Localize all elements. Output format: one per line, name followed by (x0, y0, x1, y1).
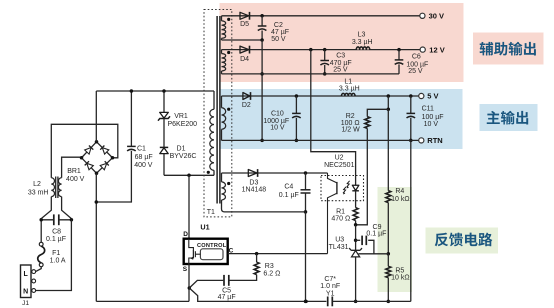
svg-text:C11: C11 (422, 106, 434, 113)
stack wire down (261, 40, 263, 140)
svg-text:S: S (183, 266, 188, 273)
ref wire (359, 253, 389, 255)
C pin wire (228, 253, 328, 255)
capacitor C10 1000 µF 10 V (295, 94, 299, 98)
svg-text:TL431: TL431 (329, 244, 349, 251)
svg-text:6.2 Ω: 6.2 Ω (263, 271, 280, 278)
capacitor C7* 1.0 nF Y1 (327, 297, 329, 307)
svg-text:10 V: 10 V (270, 124, 285, 131)
svg-text:J1: J1 (22, 300, 29, 307)
svg-text:0.1 µF: 0.1 µF (46, 236, 66, 243)
+ rail (primary top) (96, 90, 214, 92)
capacitor C9 0.1 µF (356, 239, 361, 241)
R4/R5 divider chain (387, 109, 389, 190)
terminal 12 V (420, 47, 425, 52)
svg-text:5 V: 5 V (427, 92, 438, 101)
svg-text:VR1: VR1 (174, 113, 188, 120)
primary ground bottom wire left (96, 300, 189, 302)
diode D1 BYV26C (160, 146, 168, 148)
svg-text:1N4148: 1N4148 (242, 187, 267, 194)
stack wire 12V to 5V (309, 48, 313, 52)
wire L node to F1 (40, 220, 42, 242)
svg-text:CONTROL: CONTROL (197, 243, 227, 249)
svg-text:3.3 µH: 3.3 µH (339, 86, 360, 93)
svg-text:470 Ω: 470 Ω (331, 215, 350, 222)
TL431 U3 (355, 225, 357, 250)
bridge rectifier BR1 400 V (82, 142, 113, 173)
5V rail (222, 95, 419, 97)
resistor R5 10 kΩ (387, 254, 389, 266)
fuse F1 1.0 A (39, 242, 43, 246)
svg-text:D2: D2 (242, 102, 251, 109)
svg-text:50 V: 50 V (271, 36, 286, 43)
svg-text:D: D (183, 231, 188, 238)
svg-text:R4: R4 (395, 188, 404, 195)
svg-text:C1: C1 (137, 146, 146, 153)
svg-text:U3: U3 (335, 237, 344, 244)
bias winding (221, 173, 223, 182)
TVS VR1 P6KE200 (163, 91, 165, 112)
svg-text:BR1: BR1 (67, 168, 81, 175)
svg-text:33 mH: 33 mH (28, 189, 49, 196)
label box 反馈电路 (426, 228, 499, 254)
terminal 5 V (419, 93, 424, 98)
secondary winding 12V (221, 50, 223, 54)
diode D4 (240, 46, 249, 53)
svg-text:3.3 µH: 3.3 µH (352, 39, 373, 46)
capacitor C6 100 µF 25 V (397, 48, 401, 52)
svg-text:U1: U1 (200, 222, 209, 231)
svg-text:0.1 µF: 0.1 µF (279, 192, 299, 199)
opto LED (352, 185, 359, 190)
svg-text:BYV26C: BYV26C (170, 153, 197, 160)
svg-text:C6: C6 (412, 53, 421, 60)
capacitor C11 100 µF 10 V (409, 94, 413, 98)
bias return wire (225, 211, 306, 213)
svg-text:C8: C8 (52, 229, 61, 236)
svg-text:T1: T1 (207, 209, 215, 216)
internal MOSFET (189, 239, 194, 251)
feedback zone (green strip) (378, 187, 413, 292)
svg-text:10 kΩ: 10 kΩ (391, 196, 409, 203)
opto transistor (328, 173, 337, 183)
svg-text:U2: U2 (335, 155, 344, 162)
wire bridge bottom to primary ground (95, 173, 97, 301)
12V return rail (222, 73, 400, 75)
svg-text:RTN: RTN (427, 136, 442, 145)
diode D3 1N4148 (248, 170, 257, 177)
J1 pins (32, 270, 36, 274)
S pin wire (188, 264, 190, 301)
12V rail (222, 49, 421, 51)
label box 主输出 (480, 104, 538, 131)
capacitor C8 0.1 µF (53, 214, 55, 225)
label box 辅助输出 (473, 33, 544, 65)
svg-text:10 V: 10 V (424, 121, 439, 128)
transformer core (216, 16, 218, 204)
terminal 30 V (420, 13, 425, 18)
inductor L3 3.3 µH (356, 45, 370, 50)
svg-text:0.1 µF: 0.1 µF (366, 230, 386, 237)
svg-text:L2: L2 (33, 181, 41, 188)
svg-text:1.0 nF: 1.0 nF (320, 283, 340, 290)
wire bridge top to + rail (95, 91, 97, 142)
svg-text:12 V: 12 V (429, 45, 444, 54)
winding1 bottom wire (222, 39, 263, 41)
svg-text:L1: L1 (344, 78, 352, 85)
svg-text:NEC2501: NEC2501 (324, 162, 354, 169)
capacitor C1 68 µF 400 V (130, 91, 132, 146)
svg-text:C10: C10 (271, 111, 284, 118)
30V rail (222, 15, 420, 17)
inductor L1 3.3 µH (341, 92, 356, 96)
resistor R2 100 Ω 1/2 W (387, 94, 391, 98)
svg-text:25 V: 25 V (333, 67, 348, 74)
secondary winding 30V (221, 16, 223, 21)
resistor R1 470 Ω (353, 208, 358, 221)
svg-text:P6KE200: P6KE200 (168, 121, 198, 128)
secondary winding 5V (221, 96, 223, 108)
AC loop wires L2 to bridge (51, 124, 118, 178)
svg-text:400 V: 400 V (134, 162, 153, 169)
terminal RTN (419, 138, 424, 143)
svg-text:D5: D5 (240, 21, 249, 28)
main output zone (blue) (220, 89, 463, 149)
svg-text:D1: D1 (177, 146, 186, 153)
svg-text:30 V: 30 V (429, 12, 444, 21)
svg-text:L: L (23, 271, 28, 278)
svg-text:1.0 A: 1.0 A (50, 258, 66, 265)
svg-text:100 µF: 100 µF (422, 114, 444, 121)
resistor R3 6.2 Ω (255, 252, 259, 256)
controller U1 block (184, 239, 228, 264)
capacitor C3 470 µF 25 V (323, 48, 327, 52)
svg-text:R3: R3 (265, 263, 274, 270)
svg-text:25 V: 25 V (408, 68, 423, 75)
svg-text:L3: L3 (358, 32, 366, 39)
svg-text:C4: C4 (284, 183, 293, 190)
RTN rail (222, 139, 419, 141)
primary bottom rail (164, 174, 214, 176)
capacitor C5 47 µF (223, 275, 225, 286)
transformer T1 dashed box (204, 10, 232, 217)
S jog wires (189, 280, 223, 288)
connector J1 (21, 265, 32, 298)
diode D2 (243, 93, 250, 100)
svg-text:F1: F1 (52, 250, 60, 257)
wire N pin to right C8 node (36, 220, 72, 291)
wire F1 to L pin (36, 267, 42, 272)
svg-text:47 µF: 47 µF (218, 294, 236, 301)
svg-text:Y1: Y1 (326, 290, 335, 297)
bias wire with D3 (222, 172, 328, 174)
svg-text:1/2 W: 1/2 W (341, 126, 360, 133)
svg-text:D4: D4 (240, 56, 249, 63)
svg-text:N: N (23, 288, 28, 295)
primary winding (213, 91, 215, 109)
drain wire to U1 (188, 175, 190, 238)
svg-text:C7*: C7* (324, 276, 336, 283)
capacitor C2 47 µF 50 V (260, 14, 264, 17)
svg-text:400 V: 400 V (66, 176, 85, 183)
RTN to bottom right wire (410, 140, 412, 301)
svg-text:R5: R5 (395, 267, 404, 274)
svg-text:C3: C3 (336, 53, 345, 60)
svg-text:68 µF: 68 µF (135, 154, 153, 161)
capacitor C4 0.1 µF (304, 171, 308, 175)
diode D5 (240, 12, 249, 19)
common-mode choke L2 33 mH (41, 197, 51, 219)
svg-text:10 kΩ: 10 kΩ (391, 274, 409, 281)
light arrows (347, 181, 350, 187)
resistor R4 10 kΩ (386, 191, 391, 203)
svg-text:C2: C2 (274, 22, 283, 29)
auxiliary output zone (pink) (220, 3, 464, 82)
